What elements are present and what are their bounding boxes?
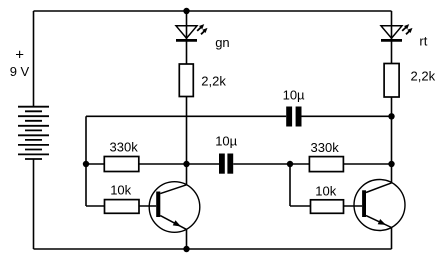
svg-text:rt: rt <box>419 34 427 49</box>
svg-text:2,2k: 2,2k <box>201 73 226 88</box>
svg-text:330k: 330k <box>311 140 340 155</box>
svg-text:330k: 330k <box>110 140 139 155</box>
svg-text:+: + <box>15 46 24 63</box>
svg-text:10µ: 10µ <box>283 87 305 102</box>
svg-text:2,2k: 2,2k <box>411 69 436 84</box>
svg-text:10µ: 10µ <box>215 134 237 149</box>
svg-text:gn: gn <box>215 35 229 50</box>
svg-text:10k: 10k <box>110 183 131 198</box>
svg-text:9 V: 9 V <box>10 64 30 79</box>
svg-text:10k: 10k <box>315 183 336 198</box>
